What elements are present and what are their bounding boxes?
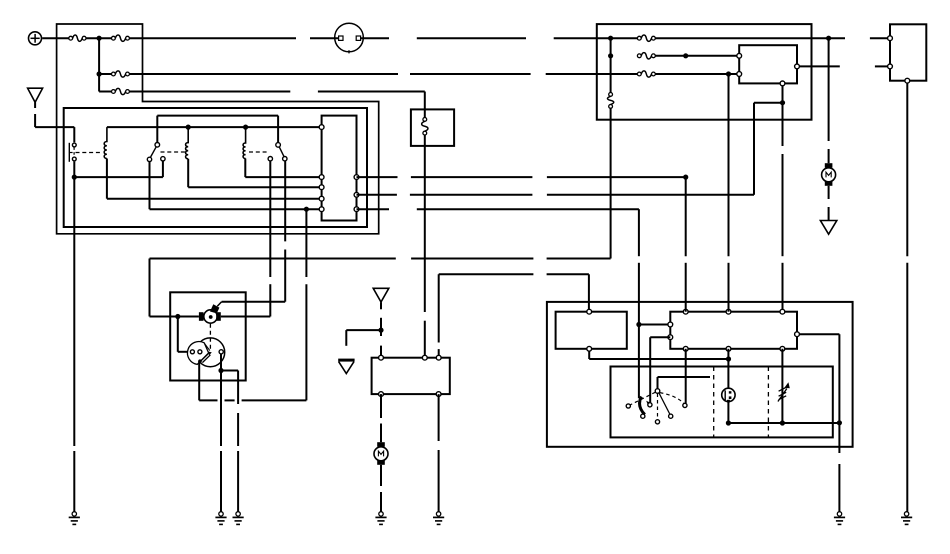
- TCI control unit box: [372, 358, 450, 394]
- wire R3 coil bottom y=177: [245, 159, 321, 178]
- dashed rotor shaft: [209, 324, 211, 350]
- relay carrier inner frame: [64, 108, 367, 227]
- PC pin left1: [668, 322, 673, 327]
- wire R1 coil top bus y=127: [107, 125, 322, 130]
- T10 pin L3: [319, 185, 324, 190]
- wire battery row y=38 (right): [417, 37, 888, 39]
- battery B+ terminal: [29, 32, 69, 45]
- node row1/row2 tap: [608, 36, 613, 259]
- PC pin bot3: [780, 346, 785, 351]
- printed circuit box: [670, 312, 797, 349]
- wire y=177 to engine side: [357, 175, 689, 180]
- fuse S8 (vertical): [607, 93, 613, 109]
- ignition switch pivot feed: [658, 377, 711, 389]
- wire bus to ground: [838, 423, 840, 512]
- relay J pin 1: [737, 53, 742, 58]
- wire coil terminal 1 y=301.7: [222, 301, 286, 303]
- wire R2 coil bottom y=187.2: [188, 159, 321, 187]
- voltage stabilizer box: [556, 312, 627, 349]
- fuel gauge sender resistor: [778, 349, 790, 423]
- fuse S2: [112, 35, 130, 41]
- wire R1 contact to node: [72, 162, 77, 180]
- relay R3 coil: [243, 127, 246, 158]
- relay R1 dashed link: [76, 152, 102, 154]
- wire to second ground: [221, 371, 238, 512]
- wire to connector y=194.8 drop: [753, 103, 755, 195]
- distributor output contact: [219, 350, 223, 354]
- PC pin right: [795, 332, 800, 337]
- wire coil 1 to breaker: [178, 317, 190, 352]
- wire X ground drop: [906, 83, 908, 511]
- breaker contact b: [198, 350, 202, 354]
- connector T10 on relay plate: [322, 116, 357, 221]
- ign contact 5: [669, 414, 673, 418]
- wire R1 coil bottom y=198.7: [107, 159, 322, 199]
- wire to printed circuit pin: [639, 324, 670, 326]
- TCI pin b2: [436, 392, 441, 397]
- wire y=209 to ignition switch: [357, 208, 639, 210]
- ignition/light switch assembly box: [597, 24, 812, 120]
- relay J in switch box: [739, 45, 797, 83]
- relay R1 contact set: [69, 143, 76, 162]
- wire fuse S4 row y=91.5: [99, 91, 425, 93]
- wire antenna to relay1 contact: [73, 127, 75, 142]
- wire to R3 left contact: [269, 161, 271, 317]
- relay R1 coil: [104, 127, 107, 158]
- wire relay J bottom to node: [754, 86, 785, 312]
- ign contact 1: [626, 404, 630, 408]
- motor M1 (antenna motor): [822, 163, 836, 186]
- node motor feed: [826, 36, 831, 164]
- ground for distributor a: [215, 511, 226, 524]
- wire coil feed y=316.5: [150, 314, 199, 319]
- ignition coil+distributor box: [170, 292, 246, 380]
- PC pin left2: [668, 335, 673, 340]
- wire battery row y=38 (left): [86, 37, 296, 39]
- ignition starter switch: [630, 389, 684, 419]
- wire gauge bus y=423: [726, 420, 842, 425]
- ground for connector X: [901, 511, 912, 524]
- wire fuse S3 row y=74: [99, 73, 637, 75]
- clock/gauge G on battery wire: [310, 23, 389, 53]
- ground for pump M2: [375, 511, 386, 524]
- ground triangle (bold): [338, 359, 354, 374]
- wire TCI b1 to pump motor: [380, 394, 382, 442]
- node fusebox feed junction: [97, 36, 102, 92]
- TCI pin b1: [379, 392, 384, 397]
- wire stabilizer out: [589, 351, 731, 361]
- wire antenna drop: [35, 102, 74, 127]
- panel partition 2: [767, 367, 769, 438]
- T10 pin L4: [319, 196, 324, 201]
- connector X pin b: [888, 64, 893, 69]
- wire PC right to gauge bus: [799, 334, 839, 423]
- breaker cam wedge: [187, 342, 209, 365]
- fuse box S9: [411, 109, 454, 145]
- wire arrow to node: [378, 302, 383, 332]
- ign contact 6: [683, 403, 687, 407]
- fuse S3: [112, 71, 130, 77]
- wire row2 y=56: [655, 53, 737, 58]
- PC pin top2: [726, 309, 731, 314]
- ground for TCI: [433, 511, 444, 524]
- fuse S6: [637, 53, 655, 59]
- T10 pin R3: [354, 207, 359, 212]
- TCI pin t3: [436, 355, 441, 360]
- wire PC bot1 to contact: [685, 349, 687, 403]
- connector X pin a: [888, 36, 893, 41]
- wire feed drops into PC: [686, 74, 729, 312]
- wire ign sw drop: [638, 325, 640, 399]
- instrument cluster outer box: [547, 302, 853, 447]
- relay J pin 4: [780, 81, 785, 86]
- TCI pin t1: [379, 355, 384, 360]
- wire node to TCI pin: [380, 330, 382, 357]
- ground arrow for M1: [820, 221, 836, 235]
- wire primary drop x=149.5: [149, 259, 151, 317]
- T10 pin L2: [319, 175, 324, 180]
- breaker contact a: [190, 350, 194, 354]
- relay J pin 3: [795, 64, 800, 69]
- fuse S5: [637, 35, 655, 41]
- fuel pump motor M2: [374, 442, 388, 465]
- fuse box / relay plate outline: [57, 24, 379, 234]
- relay R2 dashed link: [161, 151, 186, 153]
- wire M1 to ground arrow: [828, 186, 830, 221]
- stabilizer pin bottom: [587, 346, 592, 351]
- ground for cluster: [834, 511, 845, 524]
- relay J pin 2: [737, 72, 742, 77]
- ign contact 2: [641, 414, 645, 418]
- wire row3 y=74 (right): [655, 71, 737, 76]
- wire M2 to ground: [380, 465, 382, 512]
- relay R2 switch: [147, 143, 165, 162]
- wire drop to idle box pin: [588, 274, 590, 310]
- wire relay J out y=66: [799, 65, 887, 67]
- antenna/ground arrow top-left: [28, 88, 43, 102]
- fuse S1: [69, 35, 86, 41]
- ignition coil T1: [199, 304, 221, 323]
- wire distributor to grounds: [218, 354, 223, 512]
- wire node to ground triangle: [346, 330, 381, 346]
- ground for relay R1: [69, 511, 80, 524]
- wire to R3 right contact: [284, 161, 286, 302]
- wire R2 contact to y=209 run: [150, 162, 322, 212]
- warning lamp K: [722, 349, 735, 423]
- connector X pin c: [905, 78, 910, 83]
- PC pin top1: [683, 309, 688, 314]
- T10 pin L1: [319, 125, 324, 130]
- T10 pin R2: [354, 192, 359, 197]
- wire ignition sw feed drop: [636, 209, 641, 327]
- rotor arm: [198, 351, 212, 363]
- ign contact 4: [655, 420, 659, 424]
- relay R3 switch: [268, 116, 287, 161]
- wire coil HT diagonal: [217, 302, 221, 307]
- wire S9 down to control unit: [424, 135, 426, 357]
- PC pin top3: [780, 309, 785, 314]
- wire breaker to T10 y=400.4: [199, 209, 306, 400]
- PC pin bot2: [726, 346, 731, 351]
- connector X right box: [890, 24, 926, 80]
- wire y=177 R1 to R2 contact: [74, 161, 163, 177]
- wire PC left2 jog: [650, 337, 670, 402]
- T10 pin L5: [319, 207, 324, 212]
- relay R2 pivot bridge: [157, 116, 278, 143]
- ign contact 3: [648, 403, 652, 407]
- TCI pin t2: [422, 355, 427, 360]
- wire ignition primary y=258.5: [150, 258, 611, 260]
- wire control-unit link y=274.3: [439, 273, 589, 275]
- panel partition 1: [713, 367, 715, 438]
- fuse S7: [637, 71, 655, 77]
- wire coil terminal 15 y=316.5: [221, 316, 270, 318]
- relay R2 coil: [186, 127, 189, 159]
- cluster inner panel: [611, 367, 833, 438]
- wire S4 row into fuse S9: [424, 92, 426, 118]
- distributor body circle: [196, 338, 225, 367]
- wire y=195 to switch box: [357, 194, 755, 196]
- signal arrow into TCI: [373, 288, 389, 302]
- PC pin bot1: [683, 346, 688, 351]
- fuse S4: [112, 88, 130, 94]
- wire TCI b2 to ground: [438, 394, 440, 511]
- relay R3 dashed link: [249, 151, 268, 153]
- stabilizer pin top: [587, 309, 592, 314]
- ground for distributor b: [233, 511, 244, 524]
- fuse S9 (vertical): [422, 118, 428, 136]
- T10 pin R1: [354, 175, 359, 180]
- wire drop to control unit pin: [438, 274, 440, 356]
- wire R1 ground drop: [73, 177, 75, 511]
